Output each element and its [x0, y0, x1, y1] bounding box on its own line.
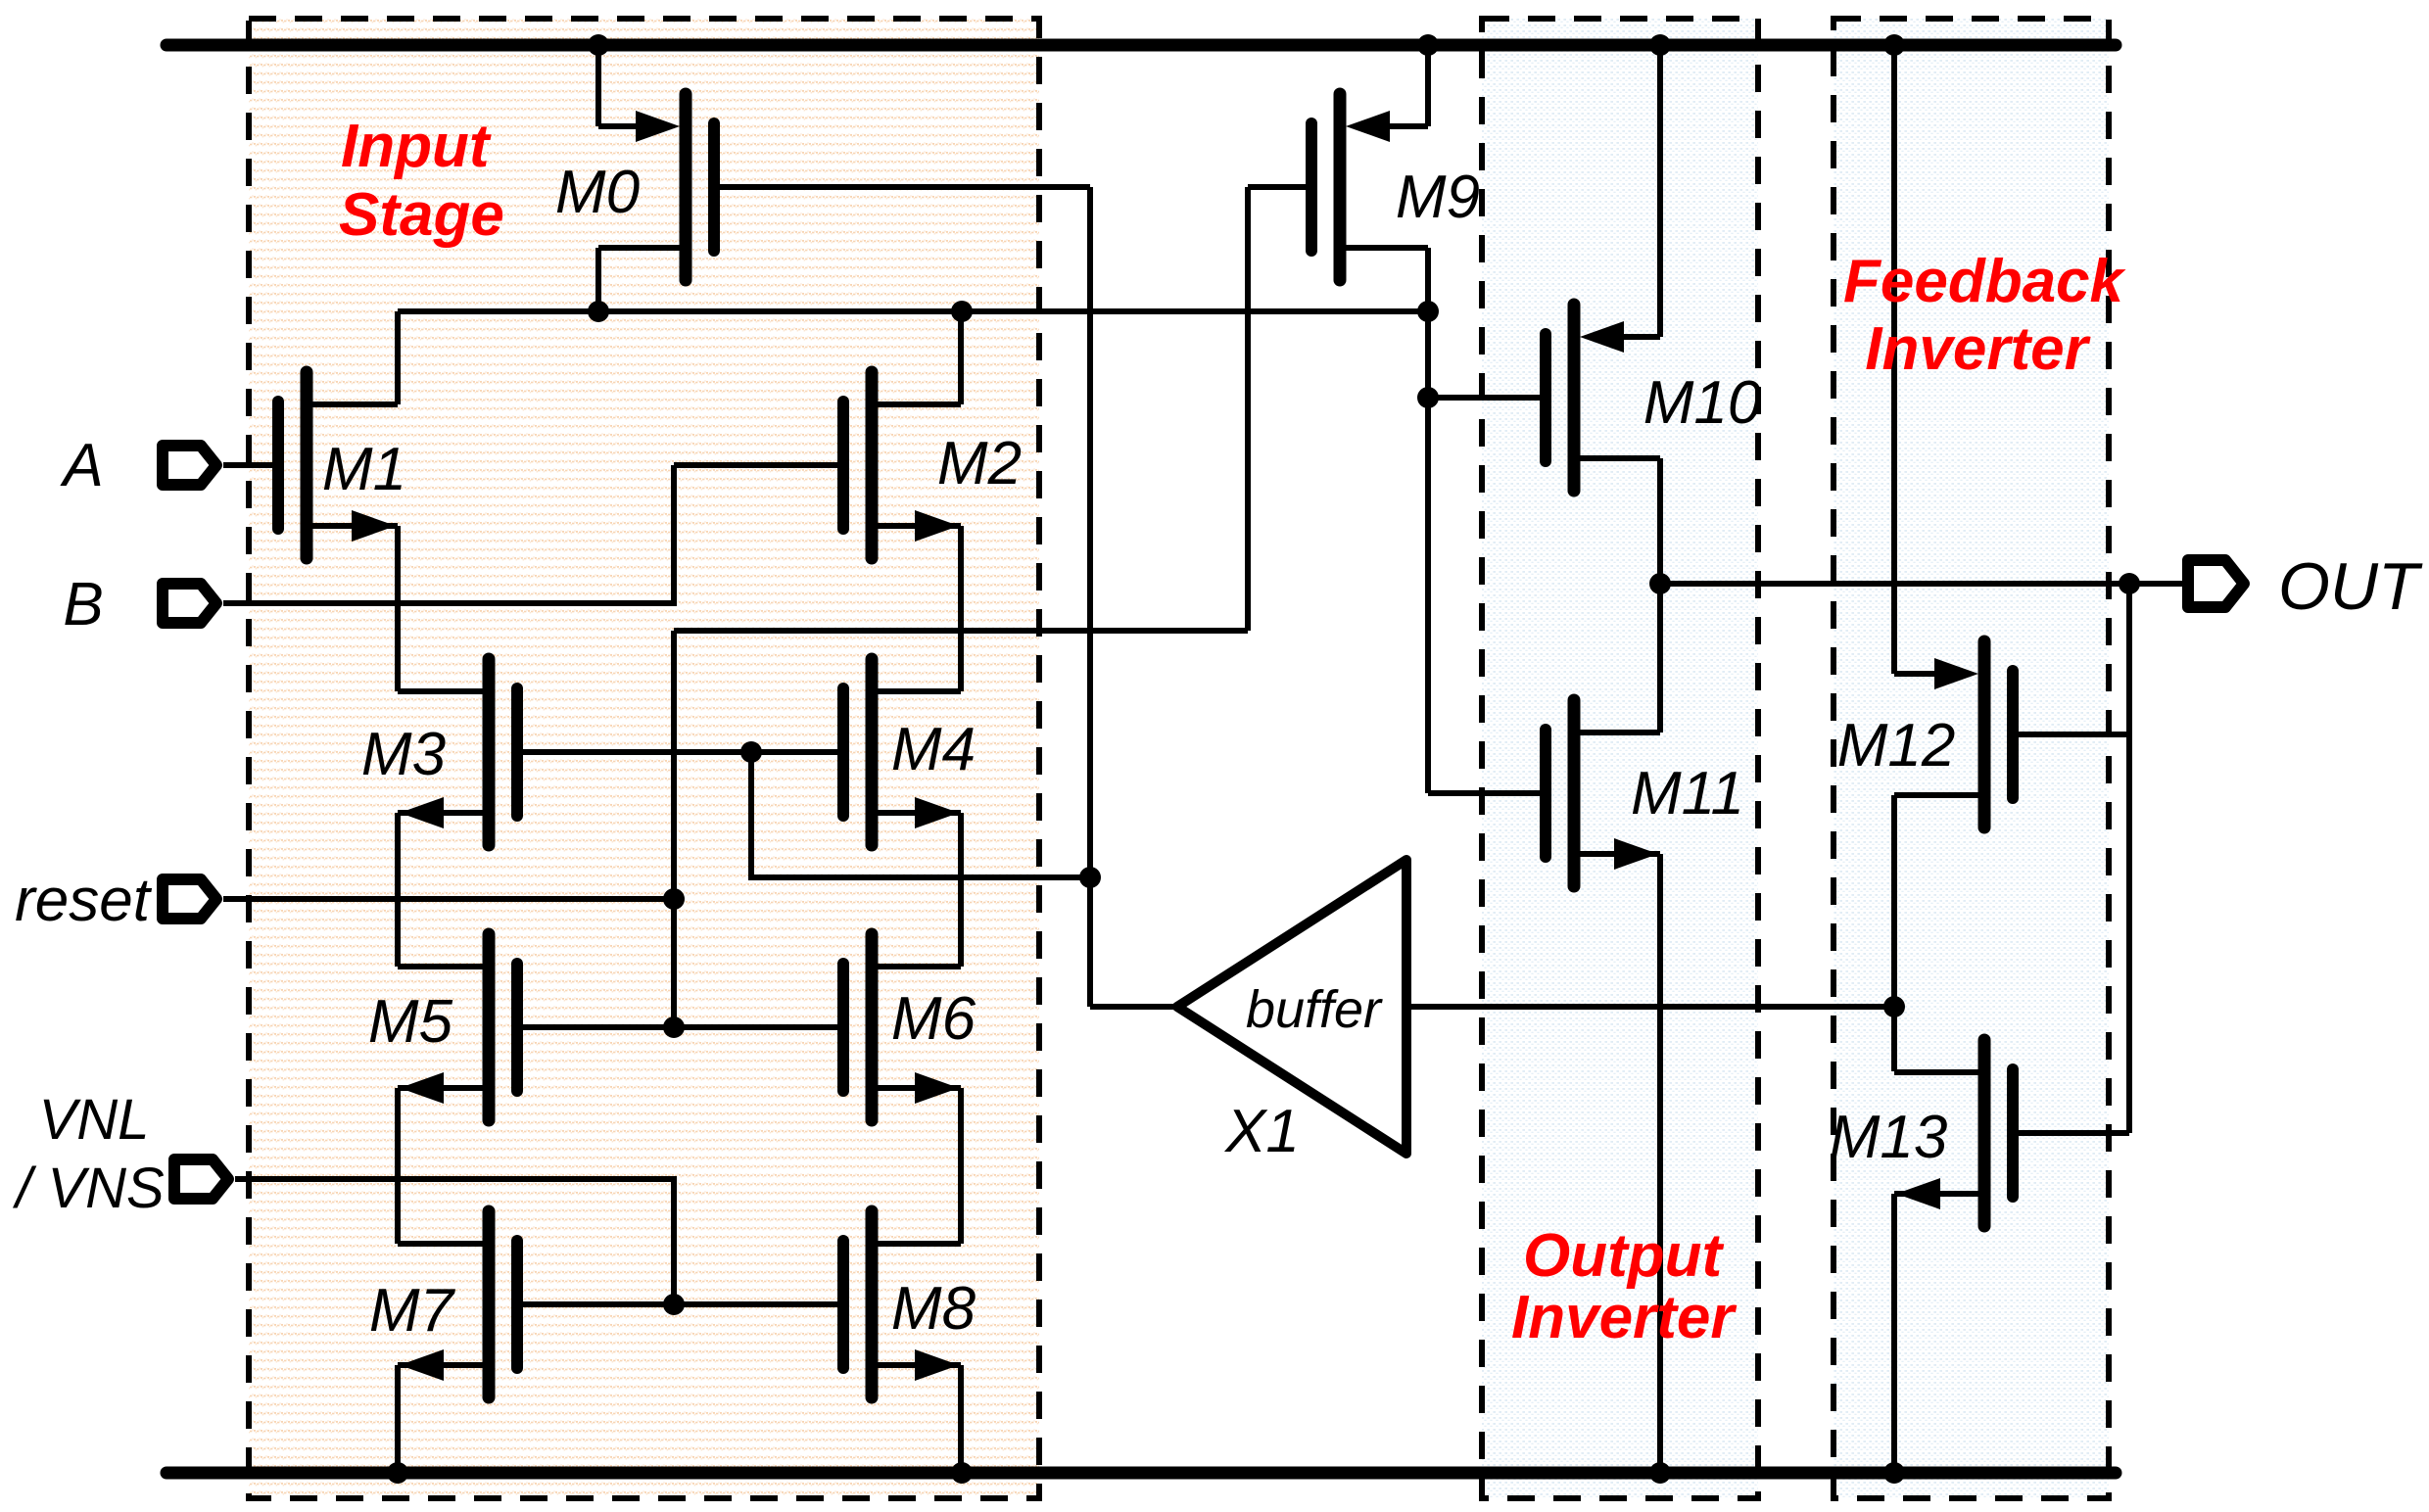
wire M4 source to M6 drain	[958, 813, 964, 967]
svg-text:M12: M12	[1837, 712, 1956, 780]
junction N1/M2 drain	[951, 301, 973, 322]
wire input A to M1 gate	[223, 462, 272, 468]
wire buffer output riser to M0 gate	[1087, 187, 1093, 1007]
svg-text:M3: M3	[361, 721, 446, 788]
svg-text:Stage: Stage	[339, 181, 504, 249]
junction VSS/M8	[951, 1462, 973, 1484]
wire VNL/VNS line to M7/M8 gates	[235, 1179, 674, 1304]
port B	[163, 584, 216, 623]
svg-text:Inverter: Inverter	[1511, 1284, 1737, 1351]
region box: Output Inverter (dashed, blue fill)	[1482, 19, 1758, 1498]
wire M1 drain riser to N1	[395, 311, 401, 404]
transistor M6 (right stack)	[836, 934, 961, 1120]
transistor M12 (feedback inverter PMOS)	[1894, 641, 2129, 827]
junction VDD/M10	[1649, 34, 1671, 56]
wire M3-M4 shared gate line	[523, 749, 836, 755]
svg-text:Inverter: Inverter	[1865, 315, 2090, 383]
wire reset to M9 gate	[674, 628, 1248, 634]
region box: Feedback Inverter (dashed, blue fill)	[1834, 19, 2109, 1498]
svg-text:Input: Input	[341, 113, 492, 180]
svg-text:buffer: buffer	[1246, 980, 1383, 1039]
svg-text:VNL: VNL	[39, 1088, 150, 1152]
wire M5 source to M7 drain	[395, 1088, 401, 1244]
svg-text:M0: M0	[555, 159, 640, 226]
power rail VDD (top)	[167, 39, 2116, 52]
port VNL/VNS	[174, 1159, 228, 1199]
port reset	[163, 879, 216, 919]
wire buffer input from feedback node	[1406, 1004, 1894, 1010]
junction buffer input node	[1883, 996, 1905, 1017]
junction VDD/M12	[1883, 34, 1905, 56]
junction N1/M9 drain	[1417, 301, 1439, 322]
transistor M1 (input A device)	[223, 372, 398, 558]
wire M2 source to M4 drain	[958, 526, 964, 691]
port OUT	[2188, 560, 2244, 607]
svg-text:M8: M8	[891, 1275, 976, 1343]
wire M12 drain to M13 drain / buffer input	[1891, 795, 1897, 1071]
transistor M2 (input B device)	[674, 372, 961, 558]
wire M1 source to M3 drain	[395, 526, 401, 691]
junction VSS/M13	[1883, 1462, 1905, 1484]
wire M13 source to VSS	[1891, 1194, 1897, 1473]
wire reset riser to M5/M6 gates	[671, 631, 677, 1027]
wire input B to M2 gate riser	[223, 465, 674, 603]
transistor M5 (left stack)	[398, 934, 523, 1120]
transistor M3 (left stack)	[398, 659, 523, 845]
svg-text:M9: M9	[1396, 164, 1480, 231]
junction OUT node	[1649, 573, 1671, 594]
transistor M9 (PMOS, reset pull-up)	[1248, 94, 1428, 280]
svg-text:Output: Output	[1523, 1222, 1724, 1290]
junction M7-M8 gate node	[663, 1294, 685, 1315]
wire M10 source tap from VDD	[1657, 45, 1663, 337]
junction VDD/M0	[588, 34, 609, 56]
wire M9 drain down the cascade	[1425, 248, 1431, 793]
wire OUT line to port	[2129, 581, 2182, 587]
transistor M11 (output inverter NMOS)	[1428, 700, 1660, 886]
wire M12 source tap from VDD	[1891, 45, 1897, 674]
junction M5-M6 gate node	[663, 1016, 685, 1038]
svg-text:B: B	[63, 571, 103, 638]
svg-text:M11: M11	[1631, 760, 1744, 827]
transistor M13 (feedback inverter NMOS)	[1894, 1040, 2129, 1226]
svg-text:M5: M5	[368, 988, 453, 1056]
power rail VSS (bottom)	[167, 1467, 2116, 1480]
junction VSS/M7	[387, 1462, 408, 1484]
wire reset line	[223, 896, 674, 902]
wire M3 source to M5 drain	[395, 813, 401, 967]
svg-text:M1: M1	[322, 436, 406, 503]
wire OUT to M12/M13 gates riser	[2126, 584, 2132, 1133]
region box: Input Stage (dashed, beige fill)	[249, 19, 1039, 1498]
wire OUT line	[1660, 581, 2182, 587]
transistor M10 (output inverter PMOS)	[1428, 305, 1660, 491]
transistor M7 (left stack bottom)	[398, 1211, 523, 1397]
svg-text:/ VNS: / VNS	[12, 1157, 165, 1220]
wire buffer output stub	[1090, 1004, 1177, 1010]
svg-text:X1: X1	[1223, 1098, 1300, 1165]
svg-text:reset: reset	[15, 867, 153, 934]
svg-text:M10: M10	[1643, 369, 1762, 437]
junction OUT port tap	[2119, 573, 2140, 594]
junction buffer net tap	[1079, 867, 1101, 888]
svg-text:A: A	[59, 432, 103, 499]
transistor M0 (PMOS, input stage top)	[598, 94, 1090, 280]
svg-text:M6: M6	[891, 985, 976, 1053]
wire M7 source to VSS	[395, 1365, 401, 1473]
wire M6 source to M8 drain	[958, 1088, 964, 1244]
wire M8 source to VSS	[958, 1365, 964, 1473]
svg-text:M2: M2	[937, 430, 1022, 497]
wire node N1 horizontal	[398, 308, 1428, 314]
junction M10 gate node	[1417, 387, 1439, 408]
wire M0 drain down to node N1	[595, 248, 601, 311]
svg-text:M7: M7	[369, 1277, 456, 1345]
wire M10 drain to M11 drain	[1657, 458, 1663, 732]
wire M5-M6 shared gate line	[523, 1024, 836, 1030]
transistor M4 (right stack)	[836, 659, 961, 845]
wire M11 source to VSS	[1657, 854, 1663, 1473]
buffer X1 (triangle pointing left)	[1177, 860, 1406, 1154]
svg-text:OUT: OUT	[2278, 549, 2423, 624]
wire M2 drain riser to N1	[958, 311, 964, 404]
wire M7-M8 shared gate line	[523, 1301, 836, 1307]
junction reset tap	[663, 888, 685, 910]
junction M3-M4 gate node	[740, 741, 762, 763]
port A	[163, 446, 216, 485]
junction N1/M0 drain	[588, 301, 609, 322]
wire M9 source tap from VDD	[1425, 45, 1431, 126]
junction VSS/M11	[1649, 1462, 1671, 1484]
svg-text:M4: M4	[891, 716, 976, 783]
wire M9 gate riser	[1245, 187, 1251, 631]
svg-text:M13: M13	[1830, 1104, 1948, 1171]
svg-text:Feedback: Feedback	[1843, 248, 2127, 315]
wire M0 source tap from VDD	[595, 45, 601, 126]
junction VDD/M9	[1417, 34, 1439, 56]
wire M3/M4 gate node to buffer net	[751, 752, 1090, 877]
transistor M8 (right stack bottom)	[836, 1211, 961, 1397]
